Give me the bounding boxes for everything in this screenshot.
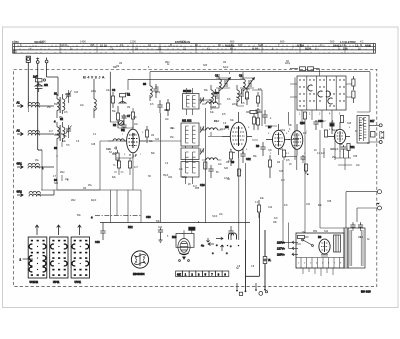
svg-text:C40: C40 [95,241,100,244]
svg-text:C64: C64 [168,177,173,179]
svg-text:64: 64 [255,47,258,51]
svg-text:500: 500 [330,40,335,44]
svg-text:220p: 220p [182,177,188,179]
svg-text:C48: C48 [91,144,96,146]
svg-text:220p: 220p [155,92,161,94]
svg-text:C33: C33 [146,216,151,219]
svg-text:NABRL: NABRL [225,43,235,47]
svg-text:S15: S15 [279,171,284,173]
svg-text:72pF: 72pF [212,216,218,218]
svg-text:~: ~ [377,201,380,206]
svg-text:R12: R12 [128,226,133,229]
svg-text:GR2: GR2 [17,190,23,194]
svg-text:B3: B3 [121,128,125,132]
svg-text:C22: C22 [246,158,251,161]
svg-text:2M2: 2M2 [60,172,65,174]
svg-text:R55: R55 [195,188,200,190]
svg-text:R22: R22 [112,154,117,156]
svg-text:800: 800 [230,40,235,44]
svg-text:UY41: UY41 [75,280,82,284]
svg-text:S11 S12: S11 S12 [182,120,192,123]
svg-text:12: 12 [355,43,358,47]
svg-text:S20: S20 [54,183,59,185]
svg-text:A2: A2 [17,129,21,133]
svg-text:220p: 220p [232,104,238,106]
svg-text:+++: +++ [214,91,219,95]
svg-text:C58: C58 [353,156,358,158]
svg-text:220p: 220p [91,91,97,93]
svg-text:92pF: 92pF [91,200,97,202]
svg-text:S4913: S4913 [333,43,341,47]
svg-text:1200: 1200 [130,40,136,44]
svg-text:0 150: 0 150 [12,40,19,44]
svg-text:15 16: 15 16 [100,43,107,47]
svg-text:62pF: 62pF [223,67,229,69]
svg-text:S20: S20 [224,168,229,170]
svg-text:M: M [170,43,172,47]
svg-text:NNN: NNN [365,43,371,47]
svg-text:UCH42: UCH42 [30,280,39,284]
svg-text:C18: C18 [200,184,205,187]
svg-text:B4X8JA: B4X8JA [83,74,106,79]
svg-text:600: 600 [280,40,285,44]
svg-text:UF41: UF41 [53,280,60,284]
svg-text:1M: 1M [83,188,86,190]
svg-text:B10: B10 [172,236,177,239]
svg-text:7pF: 7pF [268,150,273,152]
svg-text:C68: C68 [327,201,332,203]
svg-text:S9 S10: S9 S10 [183,90,192,93]
svg-text:GR: GR [44,83,48,87]
svg-text:85pF: 85pF [333,149,339,151]
svg-text:S12: S12 [324,231,329,233]
svg-text:S18: S18 [347,123,352,125]
svg-text:4+: 4+ [201,244,205,248]
svg-text:1.5 ELETRIC: 1.5 ELETRIC [340,40,356,44]
svg-text:R15: R15 [300,122,305,125]
svg-text:S23: S23 [279,149,284,151]
svg-text:S10: S10 [158,227,163,229]
svg-text:N 324: N 324 [297,43,305,47]
svg-text:2M2: 2M2 [71,200,76,202]
svg-text:R21: R21 [350,146,355,149]
svg-text:1M: 1M [119,63,122,65]
svg-text:B9: B9 [318,235,322,239]
svg-text:BD43494: BD43494 [133,272,145,276]
svg-text:1M: 1M [127,107,130,109]
svg-text:GK: GK [177,272,181,276]
svg-text:110V+: 110V+ [277,253,285,257]
svg-text:455: 455 [90,43,95,47]
svg-text:156: 156 [343,47,348,51]
svg-text:220p: 220p [125,93,131,95]
svg-text:2M2: 2M2 [321,121,326,123]
svg-text:220p: 220p [280,130,286,132]
svg-text:R55: R55 [212,107,217,109]
svg-text:S14: S14 [155,139,160,141]
svg-text:1M: 1M [358,237,361,239]
svg-text:R52: R52 [313,231,318,233]
svg-text:M: M [252,48,254,51]
svg-text:GR1: GR1 [17,162,23,166]
svg-text:C31: C31 [306,204,311,206]
svg-text:220p: 220p [285,63,291,65]
svg-text:220p: 220p [65,94,71,96]
svg-text:B9 016: B9 016 [361,290,371,294]
svg-text:KHZ: KHZ [258,43,264,47]
svg-text:127V+: 127V+ [277,247,285,251]
svg-text:100: 100 [238,43,243,47]
svg-text:1nF: 1nF [33,75,38,79]
svg-text:19pF: 19pF [220,129,226,131]
svg-text:S16: S16 [74,92,79,94]
svg-text:66pF: 66pF [332,130,338,132]
svg-text:1M: 1M [277,162,280,164]
svg-text:1400: 1400 [80,40,86,44]
svg-text:KC: KC [360,40,364,44]
svg-text:S25: S25 [203,65,208,67]
svg-text:8134: 8134 [305,47,311,51]
svg-text:1M: 1M [302,232,305,234]
svg-text:1M: 1M [151,135,154,137]
svg-text:41011: 41011 [60,43,68,47]
svg-text:A1: A1 [17,101,21,105]
svg-text:S17: S17 [370,120,375,123]
svg-text:ENTOLGAN: ENTOLGAN [175,40,190,44]
svg-text:C22: C22 [268,207,273,209]
svg-text:1M: 1M [223,62,226,64]
svg-text:49161N: 49161N [34,40,43,44]
